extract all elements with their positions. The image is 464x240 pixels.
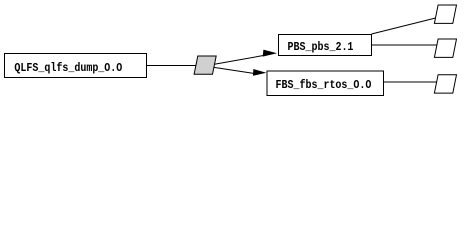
svg-text:PBS_pbs_2.1: PBS_pbs_2.1 — [288, 41, 354, 54]
svg-text:QLFS_qlfs_dump_O.O: QLFS_qlfs_dump_O.O — [14, 62, 122, 75]
svg-text:FBS_fbs_rtos_O.O: FBS_fbs_rtos_O.O — [276, 79, 372, 92]
